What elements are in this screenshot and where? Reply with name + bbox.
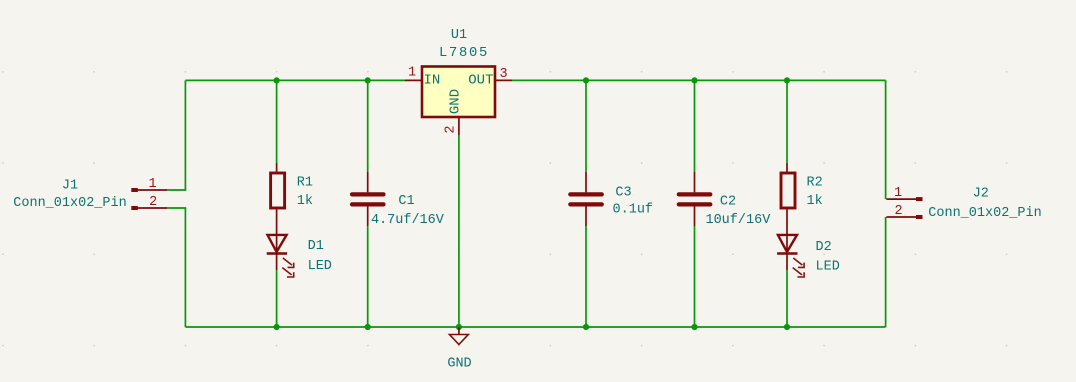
svg-text:C3: C3 <box>615 186 631 201</box>
svg-text:1: 1 <box>408 66 416 81</box>
svg-text:Conn_01x02_Pin: Conn_01x02_Pin <box>13 196 126 211</box>
svg-text:L7805: L7805 <box>439 46 489 61</box>
svg-text:C1: C1 <box>398 194 414 209</box>
svg-text:U1: U1 <box>451 28 467 43</box>
svg-text:0.1uf: 0.1uf <box>613 203 654 218</box>
svg-text:GND: GND <box>447 357 471 372</box>
svg-text:J2: J2 <box>973 187 989 202</box>
svg-text:10uf/16V: 10uf/16V <box>705 213 771 228</box>
svg-text:2: 2 <box>149 195 157 210</box>
svg-text:C2: C2 <box>720 195 736 210</box>
svg-text:1k: 1k <box>807 194 823 209</box>
svg-text:OUT: OUT <box>468 73 493 89</box>
svg-text:R2: R2 <box>807 176 823 191</box>
svg-text:2: 2 <box>444 126 459 134</box>
svg-text:LED: LED <box>816 260 840 275</box>
svg-text:3: 3 <box>499 67 507 82</box>
svg-text:D1: D1 <box>308 239 324 254</box>
svg-text:LED: LED <box>308 259 332 274</box>
svg-text:D2: D2 <box>816 240 832 255</box>
svg-text:4.7uf/16V: 4.7uf/16V <box>371 213 445 228</box>
svg-text:1: 1 <box>894 186 902 201</box>
svg-text:1: 1 <box>149 177 157 192</box>
svg-text:Conn_01x02_Pin: Conn_01x02_Pin <box>928 206 1041 221</box>
svg-text:1k: 1k <box>297 194 313 209</box>
svg-text:GND: GND <box>448 89 464 114</box>
svg-text:IN: IN <box>424 73 441 89</box>
svg-text:J1: J1 <box>62 179 78 194</box>
svg-text:R1: R1 <box>297 176 313 191</box>
svg-text:2: 2 <box>895 204 903 219</box>
